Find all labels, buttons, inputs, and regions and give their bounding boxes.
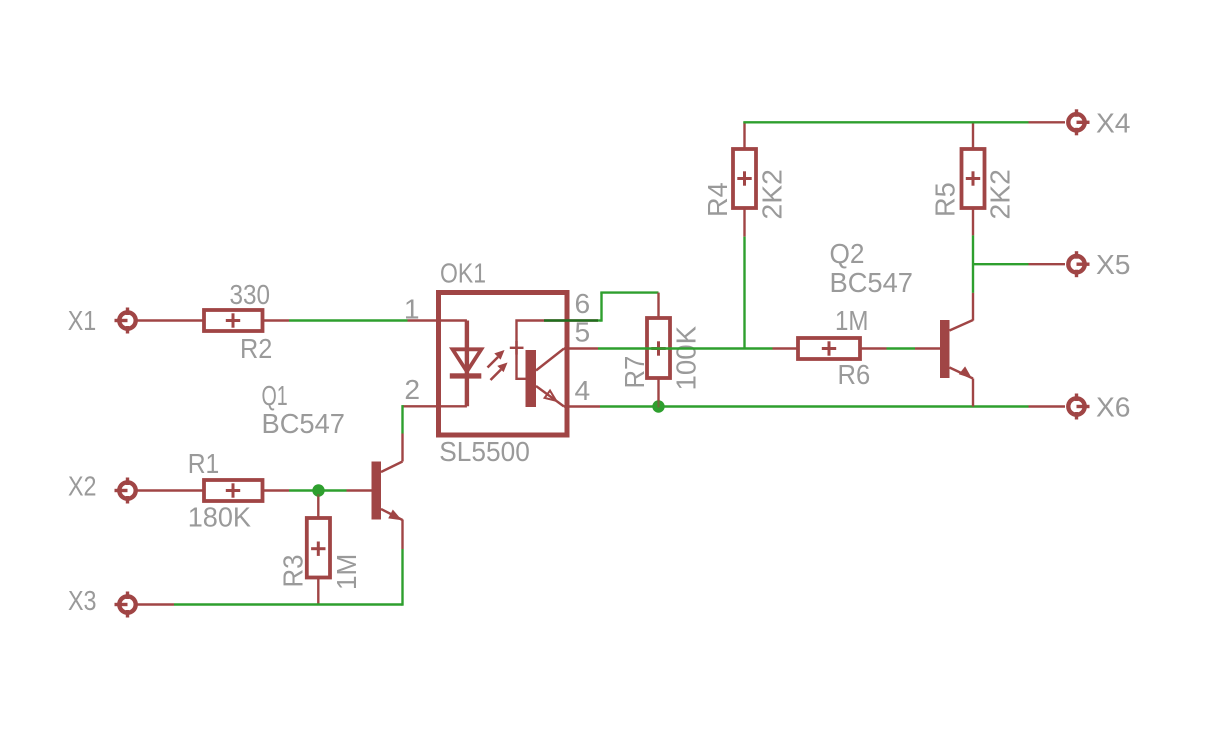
OK1 phototransistor base lead to pin 6 — [517, 321, 570, 379]
svg-text:SL5500: SL5500 — [439, 435, 530, 467]
wire X3 to Q1 emitter — [137, 520, 403, 606]
wire X5 branch — [973, 263, 1065, 265]
wire R6 to Q2 base — [860, 347, 940, 349]
transistor Q1 — [372, 462, 403, 521]
svg-text:X1: X1 — [68, 304, 97, 336]
op-amp U1 optocoupler OK1 body — [439, 293, 568, 436]
OK1 LED D1 — [450, 321, 482, 407]
wire X2 to R1 — [137, 489, 204, 491]
resistor R3 — [307, 518, 330, 578]
OK1 photon arrow 2 — [491, 364, 507, 381]
wire node A to Q1 base — [319, 489, 372, 491]
wire R1 to node A — [263, 489, 319, 491]
svg-text:1M: 1M — [330, 554, 362, 590]
wire R3 pin over node A — [317, 494, 319, 497]
resistor R2 — [204, 310, 263, 331]
junction node A dot — [312, 484, 324, 496]
OK1 phototransistor collector lead to pin 5 — [536, 349, 598, 371]
svg-text:R7: R7 — [618, 356, 650, 389]
junction node B dot — [652, 400, 664, 412]
svg-text:BC547: BC547 — [262, 407, 346, 439]
svg-text:180K: 180K — [188, 501, 251, 533]
svg-text:BC547: BC547 — [830, 266, 914, 298]
resistor R4 — [733, 149, 756, 208]
wire R7 pin over node B — [657, 400, 659, 408]
svg-text:R2: R2 — [240, 332, 272, 364]
wire R2 to OK1 pin 1 — [263, 319, 437, 321]
svg-text:X4: X4 — [1096, 106, 1131, 138]
connector pad X6 — [1068, 394, 1089, 420]
svg-text:R1: R1 — [188, 447, 220, 479]
resistor R6 — [798, 338, 860, 359]
OK1 origin cross — [510, 341, 524, 355]
svg-text:2K2: 2K2 — [984, 169, 1016, 219]
svg-text:6: 6 — [575, 287, 591, 319]
svg-text:2K2: 2K2 — [756, 169, 788, 219]
svg-text:100K: 100K — [670, 326, 702, 391]
OK1 LED cathode lead (pin 2 internal) — [436, 405, 467, 407]
OK1 LED anode lead (pin 1 internal) — [436, 319, 467, 321]
wire X1 to R2 — [137, 319, 204, 321]
connector pad X3 — [115, 592, 136, 618]
connector pad X2 — [115, 478, 136, 504]
wire R7 bottom to node B — [657, 378, 659, 407]
svg-text:X6: X6 — [1096, 391, 1131, 423]
svg-text:4: 4 — [575, 374, 591, 406]
svg-text:330: 330 — [230, 278, 271, 310]
OK1 pin 6 lead — [570, 319, 599, 321]
wire OK1 pin 4 to X6 — [600, 405, 1065, 407]
OK1 photon arrow 1 — [488, 351, 504, 368]
wire Q2 emitter to X6 net — [972, 379, 974, 407]
wire R5 bottom to Q2 collector — [972, 208, 974, 321]
wire top rail to X4 — [743, 121, 1065, 123]
connector pad X5 — [1068, 251, 1089, 277]
svg-text:R6: R6 — [838, 358, 871, 390]
OK1 phototransistor emitter lead to pin 4 — [536, 386, 600, 407]
wire R5 top pin — [972, 122, 974, 149]
resistor R1 — [204, 480, 263, 501]
svg-text:R5: R5 — [929, 182, 961, 217]
svg-text:Q2: Q2 — [830, 237, 865, 269]
resistor R5 — [962, 149, 985, 208]
svg-text:X3: X3 — [68, 584, 97, 616]
svg-text:1: 1 — [404, 293, 420, 325]
wire R4 top pin — [743, 122, 745, 149]
OK1 phototransistor base bar — [526, 350, 537, 407]
svg-text:1M: 1M — [835, 304, 869, 336]
wire OK1 pin 5 to R6 — [598, 347, 798, 349]
wire R3 bottom to X3 net — [317, 578, 319, 605]
svg-text:OK1: OK1 — [440, 257, 486, 289]
connector pad X4 — [1068, 109, 1089, 135]
svg-text:R4: R4 — [701, 182, 733, 217]
svg-text:X2: X2 — [68, 469, 97, 501]
transistor Q2 — [940, 320, 973, 379]
svg-text:2: 2 — [404, 373, 420, 405]
wire OK1 pin 6 to R7 top — [598, 293, 659, 322]
svg-text:X5: X5 — [1096, 248, 1131, 280]
wire OK1 pin 6 overlap — [544, 319, 598, 321]
wire R4 bottom to pin5 net — [743, 208, 745, 349]
connector pad X1 — [115, 308, 136, 334]
svg-text:R3: R3 — [277, 555, 309, 588]
wire OK1 pin 2 to Q1 collector — [403, 405, 437, 461]
wire node A to R3 top — [317, 491, 319, 519]
resistor R7 — [647, 318, 670, 378]
